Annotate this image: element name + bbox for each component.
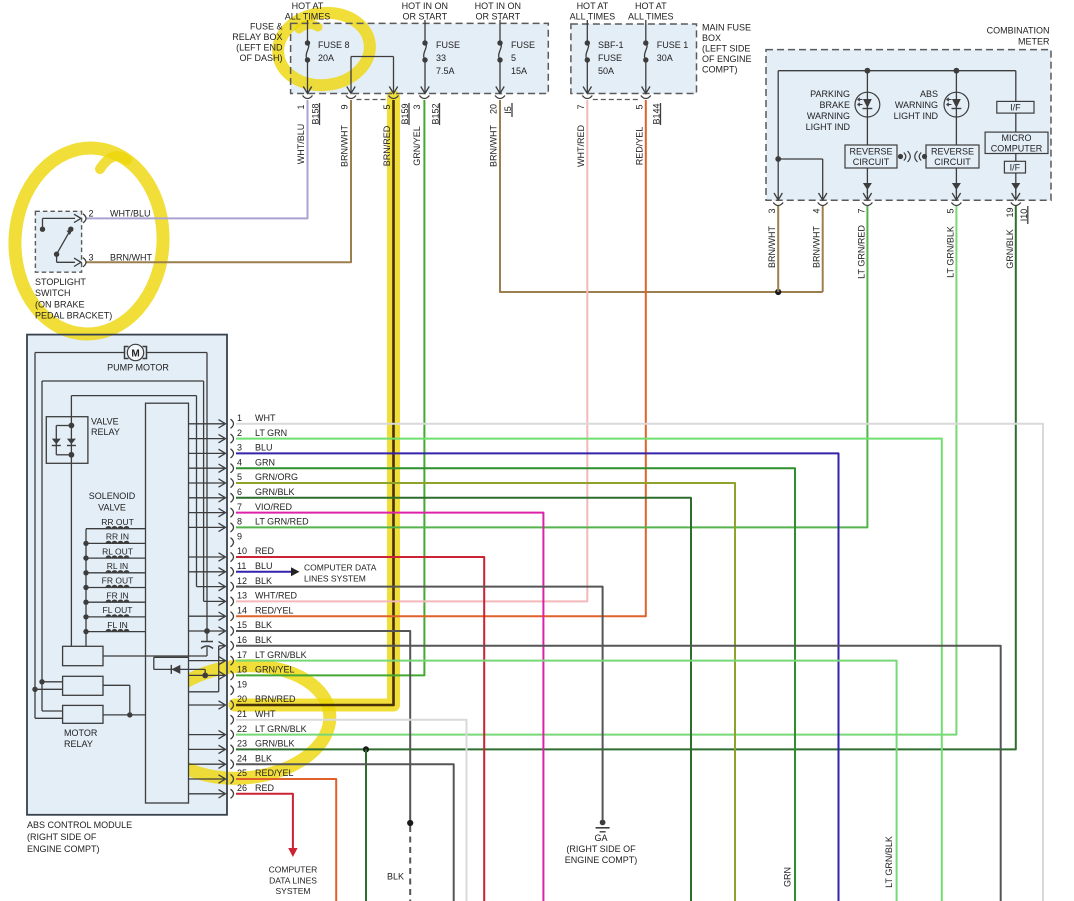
svg-text:ALL TIMES: ALL TIMES: [628, 12, 674, 22]
svg-text:FUSE: FUSE: [511, 40, 535, 50]
wire GRN/YEL from fuse box pin 3 to ABS pin 18: [236, 100, 424, 675]
svg-text:SYSTEM: SYSTEM: [276, 886, 311, 896]
ABS warning LED: [944, 71, 969, 145]
ABS pin 13 connector bracket: [231, 597, 234, 606]
svg-text:GRN/ORG: GRN/ORG: [255, 472, 298, 482]
meter pin 5 label: [945, 208, 955, 213]
svg-text:5: 5: [237, 472, 242, 482]
svg-text:BRN/WHT: BRN/WHT: [340, 125, 350, 167]
solenoid bus: [85, 529, 87, 647]
svg-text:15: 15: [237, 620, 247, 630]
svg-text:COMPUTER DATA: COMPUTER DATA: [304, 563, 377, 573]
pin 9 label: [340, 104, 350, 109]
svg-text:SWITCH: SWITCH: [35, 288, 71, 298]
relay box A: [63, 646, 207, 665]
svg-text:GRN/BLK: GRN/BLK: [1005, 229, 1015, 269]
svg-text:FUSE 8: FUSE 8: [318, 40, 350, 50]
svg-text:26: 26: [237, 783, 247, 793]
svg-text:RL IN: RL IN: [107, 561, 128, 571]
fuse SBF-1 50A: [583, 20, 623, 94]
buzzer symbol left: [898, 151, 910, 162]
svg-text:4: 4: [237, 457, 242, 467]
main fuse box label: [702, 23, 752, 75]
svg-text:19: 19: [237, 679, 247, 689]
svg-text:DATA LINES: DATA LINES: [269, 876, 317, 886]
solenoid valve coil FR OUT: [83, 576, 145, 591]
ABS pin 2 label: [237, 428, 287, 438]
ABS pin 12 connector bracket: [231, 582, 234, 591]
svg-text:HOT IN ON: HOT IN ON: [402, 1, 448, 11]
wire WHT/RED from main fuse SBF-1 pin 7 to ABS pin 13: [236, 100, 587, 601]
ABS pin 20 label: [237, 694, 296, 704]
ABS pin 26 internal arrow: [189, 790, 226, 798]
ground GA label: [565, 833, 638, 865]
wire 25 RED/YEL: [236, 779, 336, 901]
svg-text:LINES SYSTEM: LINES SYSTEM: [304, 574, 366, 584]
I/F box top: [997, 101, 1034, 113]
ABS pin 3 label: [237, 443, 273, 453]
solenoid valve coil FL OUT: [83, 605, 145, 620]
svg-text:RELAY: RELAY: [91, 427, 120, 437]
ABS pin 9 connector bracket: [231, 538, 234, 547]
valve relay wire: [71, 396, 196, 647]
stoplight switch contacts: [40, 214, 81, 266]
solenoid valve coil RR OUT: [86, 517, 146, 529]
switch connector bump pin 2: [83, 214, 86, 223]
ABS pin 1 label: [237, 413, 276, 423]
connector B159 label: [400, 103, 410, 125]
ABS pin 14 connector bracket: [231, 612, 234, 621]
ABS pin 10 label: [237, 546, 275, 556]
meter top bus: [778, 70, 1016, 72]
svg-text:21: 21: [237, 709, 247, 719]
ABS pin 15 label: [237, 620, 272, 630]
ABS pin 24 connector bracket: [231, 760, 234, 769]
svg-text:FL IN: FL IN: [107, 620, 127, 630]
svg-text:1: 1: [296, 104, 306, 109]
highlight ellipse around ABS pins 19-23: [149, 659, 334, 786]
highlight ellipse around stoplight switch: [10, 144, 168, 337]
ABS pin 24 internal arrow: [189, 760, 226, 768]
svg-text:20A: 20A: [318, 53, 334, 63]
svg-text:STOPLIGHT: STOPLIGHT: [35, 277, 86, 287]
svg-text:7: 7: [576, 104, 586, 109]
connector bump pin 1: [303, 96, 313, 99]
svg-text:BRN/WHT: BRN/WHT: [489, 125, 499, 167]
wire label BRN/RED pin5: [382, 125, 392, 166]
wire GRN/BLK from meter pin 19 to ABS pin 23: [236, 206, 1016, 749]
fuse 1 30A: [642, 20, 689, 94]
ABS pin 11 label: [237, 561, 273, 571]
meter connector bump pin 4: [818, 203, 828, 206]
meter connector bump pin 3: [773, 203, 783, 206]
svg-text:BLK: BLK: [255, 576, 272, 586]
ABS pin 25 connector bracket: [231, 774, 234, 783]
abs led stem to pin 5: [952, 168, 961, 200]
ABS pin 3 internal arrow: [189, 449, 226, 457]
wire BLK dashed continuation: [409, 826, 411, 901]
ABS control module label: [27, 820, 132, 854]
ABS pin 8 label: [237, 517, 309, 527]
ABS pin 16 connector bracket: [231, 641, 234, 650]
svg-text:FL OUT: FL OUT: [103, 605, 133, 615]
wire BRN/WHT from fuse box pin 20 to meter pins 3 and 4: [500, 100, 823, 292]
parking brake warning LED: [855, 71, 880, 145]
wire GRN/BLK branch down to bottom: [365, 749, 367, 901]
wire LT GRN/BLK from meter pin 5 to ABS pin 22: [236, 206, 956, 735]
micro computer stem: [1015, 71, 1017, 102]
svg-text:COMPUTER: COMPUTER: [269, 865, 318, 875]
switch connector bump pin 3: [83, 258, 86, 267]
svg-text:WHT/BLU: WHT/BLU: [296, 124, 306, 165]
svg-text:LT GRN/BLK: LT GRN/BLK: [255, 724, 307, 734]
svg-text:ABS: ABS: [920, 89, 938, 99]
connector B152 label: [431, 103, 441, 125]
svg-text:ENGINE COMPT): ENGINE COMPT): [27, 844, 100, 854]
ABS pin 23 label: [237, 739, 295, 749]
pin 20 label: [489, 104, 499, 114]
solenoid valve coil RL OUT: [83, 546, 145, 561]
fuse 5 15A: [496, 20, 535, 94]
parking brake warning light ind label: [806, 89, 851, 132]
svg-text:BOX: BOX: [702, 33, 721, 43]
svg-text:PARKING: PARKING: [810, 89, 850, 99]
label HOT AT ALL TIMES (SBF-1): [570, 1, 616, 22]
svg-text:7: 7: [856, 208, 866, 213]
junction dot wire 15 BLK: [407, 820, 413, 826]
svg-text:OR START: OR START: [475, 12, 520, 22]
svg-text:RELAY: RELAY: [64, 739, 93, 749]
ABS pin 14 label: [237, 605, 294, 615]
svg-text:GRN/BLK: GRN/BLK: [255, 739, 295, 749]
fuse & relay box (left end of dash): [291, 23, 549, 93]
combination meter box: [766, 50, 1051, 201]
svg-text:RED/YEL: RED/YEL: [634, 127, 644, 166]
dashed connector link B144: [593, 99, 641, 101]
stoplight switch box: [35, 211, 81, 272]
label HOT IN ON OR START (fuse 5): [475, 1, 521, 22]
wire BRN/WHT meter pin 4 drop: [822, 206, 824, 292]
svg-text:SBF-1: SBF-1: [598, 40, 624, 50]
svg-text:ABS CONTROL MODULE: ABS CONTROL MODULE: [27, 820, 132, 830]
svg-text:FR IN: FR IN: [106, 590, 128, 600]
svg-text:WHT/RED: WHT/RED: [576, 125, 586, 167]
svg-text:50A: 50A: [598, 66, 614, 76]
svg-text:BLU: BLU: [255, 443, 273, 453]
ABS pin 12 internal arrow: [197, 582, 226, 590]
wire label GRN/YEL pin3: [412, 126, 422, 166]
connector bump pin 20: [495, 96, 505, 99]
pump motor M symbol: [125, 344, 147, 360]
ABS pin 7 connector bracket: [231, 508, 234, 517]
wire 21 WHT: [236, 720, 467, 901]
pump motor label: [107, 363, 169, 373]
svg-text:COMBINATION: COMBINATION: [987, 26, 1050, 36]
svg-text:(ON BRAKE: (ON BRAKE: [35, 300, 85, 310]
svg-text:LT GRN/BLK: LT GRN/BLK: [255, 650, 307, 660]
svg-text:GRN: GRN: [255, 457, 275, 467]
wire BRN/WHT from fuse box pin 9 to stoplight switch pin 3: [86, 100, 351, 262]
svg-text:LT GRN/BLK: LT GRN/BLK: [884, 836, 894, 888]
connector I10 label: [1019, 206, 1029, 224]
ABS pin 21 label: [237, 709, 276, 719]
pin 3 label: [412, 104, 422, 109]
ABS pin 6 label: [237, 487, 295, 497]
label HOT IN ON OR START (fuse 33): [402, 1, 448, 22]
svg-text:BRN/WHT: BRN/WHT: [110, 253, 152, 263]
wire RED/YEL from main fuse 1 pin 5 to ABS pin 14: [236, 100, 646, 616]
highlight ellipse around FUSE 8: [274, 8, 374, 91]
svg-text:WHT/RED: WHT/RED: [255, 591, 297, 601]
label HOT AT ALL TIMES (fuse 8): [285, 1, 331, 22]
svg-text:GRN/YEL: GRN/YEL: [255, 665, 295, 675]
svg-text:17: 17: [237, 650, 247, 660]
ABS pin 24 label: [237, 753, 272, 763]
wire 5 GRN/ORG: [236, 483, 735, 901]
junction dot GRN/BLK branch: [363, 746, 369, 752]
svg-text:12: 12: [237, 576, 247, 586]
svg-text:16: 16: [237, 635, 247, 645]
fuse F8 20A: [303, 20, 349, 94]
main fuse box (left side of engine compt): [571, 24, 697, 94]
meter connector bump pin 5: [951, 203, 961, 206]
svg-text:LT GRN/BLK: LT GRN/BLK: [945, 226, 955, 278]
meter connector bump pin 19: [1011, 203, 1021, 206]
relay box C: [35, 705, 146, 723]
svg-text:FR OUT: FR OUT: [102, 576, 134, 586]
meter wire label LT GRN/BLK: [945, 226, 955, 278]
ABS pin 5 connector bracket: [231, 478, 234, 487]
svg-text:18: 18: [237, 665, 247, 675]
svg-text:RR IN: RR IN: [106, 532, 129, 542]
svg-text:PEDAL BRACKET): PEDAL BRACKET): [35, 311, 112, 321]
switch wire label BRN/WHT: [110, 253, 152, 263]
svg-text:2: 2: [237, 428, 242, 438]
svg-text:19: 19: [1005, 207, 1015, 217]
wire LT GRN/RED from meter pin 7 to ABS pin 8: [236, 206, 867, 527]
computer data lines system label (pin 26): [269, 865, 318, 897]
ABS pin 23 connector bracket: [231, 745, 234, 754]
ABS pin 22 connector bracket: [231, 730, 234, 739]
svg-text:COMPT): COMPT): [702, 65, 738, 75]
stoplight switch label: [35, 277, 112, 321]
svg-text:RED: RED: [255, 546, 275, 556]
motor loop 2: [42, 381, 204, 711]
ABS pin 4 connector bracket: [231, 464, 234, 473]
ABS pin 11 connector bracket: [231, 567, 234, 576]
svg-text:GRN/YEL: GRN/YEL: [412, 126, 422, 166]
micro computer lower stem: [1015, 154, 1017, 162]
wire 24 BLK: [236, 764, 454, 901]
ABS pin 13 label: [237, 591, 297, 601]
connector bump pin 5: [389, 96, 399, 99]
meter wire label LT GRN/RED: [856, 225, 866, 279]
svg-text:8: 8: [237, 517, 242, 527]
wire 11 BLU to computer data lines system: [236, 567, 300, 576]
wire label BRN/WHT pin9: [340, 125, 350, 167]
ground GA symbol: [596, 820, 610, 832]
svg-text:RR OUT: RR OUT: [101, 517, 134, 527]
reverse circuit box right: [926, 145, 979, 168]
svg-text:HOT AT: HOT AT: [577, 1, 609, 11]
solenoid valve label: [89, 491, 136, 513]
buzzer symbol right: [915, 151, 927, 162]
combination meter label: [987, 26, 1050, 47]
combination meter fill: [766, 50, 1051, 201]
ABS pin 9 label: [237, 531, 242, 541]
internal bus link pins 9-5: [347, 57, 398, 94]
svg-text:RED/YEL: RED/YEL: [255, 605, 294, 615]
micro computer mid stem: [1015, 113, 1017, 132]
meter pin 4 label: [812, 208, 822, 213]
wire label BRN/WHT pin20: [489, 125, 499, 167]
reverse circuit box left: [845, 145, 897, 168]
svg-text:MAIN FUSE: MAIN FUSE: [702, 23, 751, 33]
ABS pin 16 internal arrow: [219, 642, 226, 650]
ABS pin 1 connector bracket: [231, 419, 234, 428]
svg-text:FUSE: FUSE: [598, 53, 622, 63]
switch wire label WHT/BLU: [110, 209, 151, 219]
connector bump pin 9: [346, 96, 356, 99]
svg-text:VALVE: VALVE: [98, 503, 126, 513]
ABS pin 7 internal arrow: [189, 508, 226, 516]
pump motor wire loop: [35, 353, 207, 719]
svg-text:HOT IN ON: HOT IN ON: [475, 1, 521, 11]
svg-text:OF DASH): OF DASH): [239, 53, 282, 63]
svg-text:1: 1: [237, 413, 242, 423]
svg-text:MICRO: MICRO: [1002, 133, 1032, 143]
meter left vertical to pin 3: [774, 71, 782, 200]
ABS pin 10 internal arrow: [189, 553, 226, 561]
fuse 33 7.5A: [421, 20, 460, 94]
connector bump pin 5 main: [641, 96, 651, 99]
computer data lines system label (pin 11): [304, 563, 377, 584]
svg-text:7: 7: [237, 502, 242, 512]
wire label BLK bottom: [387, 872, 404, 882]
svg-text:LT GRN: LT GRN: [255, 428, 287, 438]
solenoid valve coil FL IN: [83, 620, 145, 635]
svg-text:15A: 15A: [511, 66, 527, 76]
wire 10 RED: [236, 557, 484, 901]
svg-text:5: 5: [382, 104, 392, 109]
svg-text:BRN/WHT: BRN/WHT: [812, 226, 822, 268]
ABS pin 8 internal arrow: [189, 523, 226, 531]
wire 16 BLK: [236, 646, 1001, 901]
svg-text:3: 3: [89, 253, 94, 263]
fuse & relay box label: [232, 22, 283, 64]
meter pin 3 label: [767, 208, 777, 213]
svg-text:RED/YEL: RED/YEL: [255, 768, 294, 778]
meter connector bump pin 7: [862, 203, 872, 206]
motor relay label: [64, 728, 98, 749]
ABS warning light ind label: [894, 89, 939, 121]
svg-text:3: 3: [237, 443, 242, 453]
ABS pin 15 internal arrow: [189, 627, 226, 635]
ABS pin 22 label: [237, 724, 307, 734]
svg-text:WHT: WHT: [255, 709, 276, 719]
ABS pin 17 connector bracket: [231, 656, 234, 665]
svg-text:WARNING: WARNING: [807, 111, 850, 121]
svg-text:VALVE: VALVE: [91, 417, 119, 427]
dashed connector link B159: [357, 99, 389, 101]
ABS pin 2 internal arrow: [189, 434, 226, 442]
svg-text:BLK: BLK: [255, 620, 272, 630]
valve relay: [46, 417, 88, 464]
pin 5 label: [382, 104, 392, 109]
ABS pin 12 label: [237, 576, 272, 586]
ABS pin 17 label: [237, 650, 307, 660]
capacitor C1 at pin 15: [201, 628, 213, 656]
ABS pin 20 connector bracket: [231, 700, 234, 709]
svg-text:24: 24: [237, 753, 247, 763]
svg-text:RED: RED: [255, 783, 275, 793]
ABS pin 26 connector bracket: [231, 789, 234, 798]
svg-text:3: 3: [767, 208, 777, 213]
svg-text:30A: 30A: [657, 53, 673, 63]
ABS pin 5 label: [237, 472, 298, 482]
svg-text:WHT: WHT: [255, 413, 276, 423]
ABS pin 2 connector bracket: [231, 434, 234, 443]
svg-text:BRN/WHT: BRN/WHT: [767, 226, 777, 268]
svg-text:20: 20: [489, 104, 499, 114]
connector I5 label: [503, 103, 513, 117]
switch pin 2 label: [89, 209, 94, 219]
wire label RED/YEL: [634, 127, 644, 166]
svg-text:LIGHT IND: LIGHT IND: [894, 111, 939, 121]
main fuse box fill: [571, 24, 697, 94]
ABS control module fill: [27, 335, 227, 815]
solenoid valve coil RL IN: [83, 561, 145, 576]
wire 17 LT GRN/BLK: [236, 661, 897, 901]
svg-text:GRN: GRN: [783, 867, 793, 887]
fuse & relay box fill: [291, 23, 549, 93]
connector strip: [146, 403, 189, 803]
wire 26 RED to computer data lines system: [236, 794, 298, 857]
svg-text:23: 23: [237, 739, 247, 749]
svg-text:OF ENGINE: OF ENGINE: [702, 54, 752, 64]
svg-text:22: 22: [237, 724, 247, 734]
svg-text:9: 9: [237, 531, 242, 541]
svg-text:FUSE: FUSE: [436, 40, 460, 50]
svg-text:13: 13: [237, 591, 247, 601]
junction dot bus parking led: [865, 68, 871, 74]
svg-text:14: 14: [237, 605, 247, 615]
svg-text:HOT AT: HOT AT: [292, 1, 324, 11]
pin 1 label: [296, 104, 306, 109]
svg-text:RL OUT: RL OUT: [102, 546, 133, 556]
svg-text:VIO/RED: VIO/RED: [255, 502, 293, 512]
ABS pin 19 label: [237, 679, 247, 689]
wire 2 LT GRN: [236, 439, 942, 901]
junction dot bus abs led: [954, 68, 960, 74]
svg-text:BLK: BLK: [255, 635, 272, 645]
meter pin 7 label: [856, 208, 866, 213]
solenoid valve coil RR IN: [83, 532, 145, 547]
wire BRN/WHT meter pin 3 drop: [777, 206, 779, 292]
connector B158 label: [311, 103, 321, 125]
svg-text:FUSE 1: FUSE 1: [657, 40, 689, 50]
svg-text:M: M: [131, 349, 139, 360]
meter branch to pin 4: [778, 159, 827, 200]
wire 1 WHT: [236, 424, 1043, 901]
solenoid valve coil FR IN: [83, 590, 145, 605]
meter wire label BRN/WHT pin3: [767, 226, 777, 268]
relay box B: [32, 676, 130, 715]
ABS pin 16 label: [237, 635, 272, 645]
svg-text:WARNING: WARNING: [895, 100, 938, 110]
wire label WHT/RED: [576, 125, 586, 167]
svg-text:BRN/RED: BRN/RED: [382, 125, 392, 166]
